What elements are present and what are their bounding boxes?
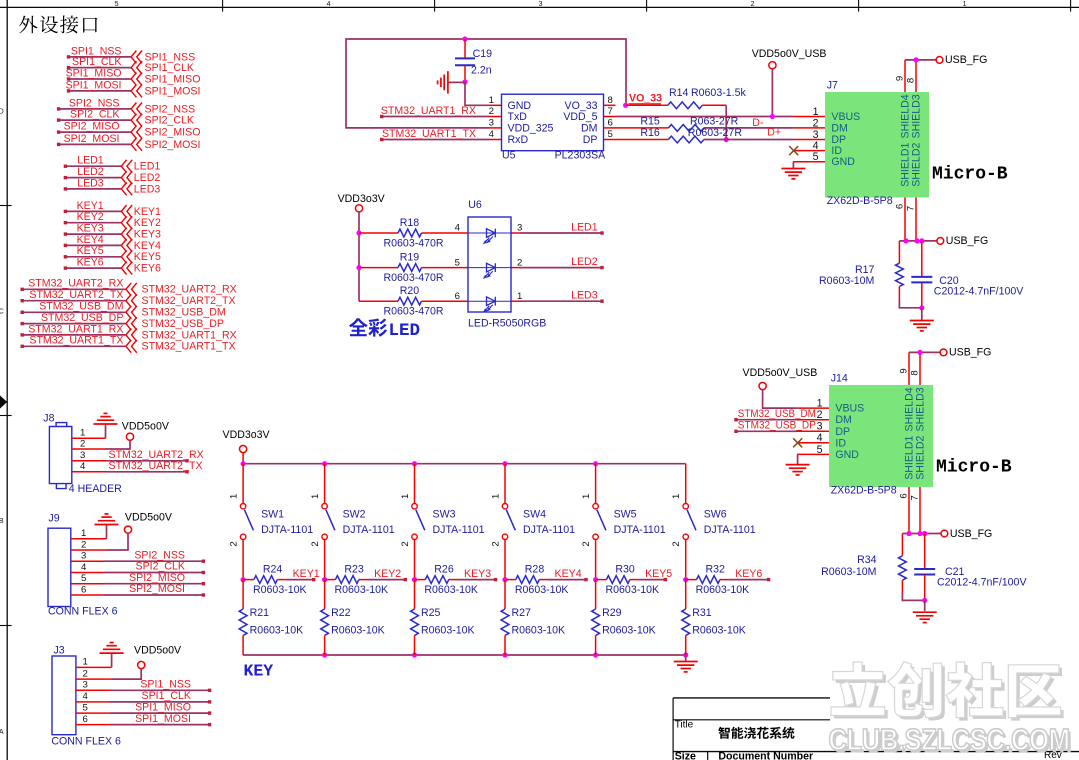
svg-text:D+: D+ [767,127,781,139]
port chevron STM32_USB_DM [126,306,137,319]
svg-text:VDD_325: VDD_325 [508,122,554,134]
U5 pin names left [508,100,554,146]
wire VDD_5 rail to J7 VBUS [616,116,794,118]
ground J14 GND [786,464,810,466]
svg-text:R18: R18 [400,217,420,229]
wire net SPI2_CLK [59,119,131,121]
port chevron KEY5 [121,250,132,263]
svg-text:VDD5o0V_USB: VDD5o0V_USB [752,48,827,60]
wire USB_FG bottom rail J7 [899,240,936,242]
wire C20 bottom lead [921,282,923,307]
svg-text:Document Number: Document Number [718,751,813,760]
svg-text:SHIELD3: SHIELD3 [911,94,923,138]
svg-text:KEY4: KEY4 [134,240,161,252]
switch SW4 pin2 circle [502,534,507,539]
wire net SPI2_MISO [59,131,131,133]
J7 pin stubs 1-5 [793,117,825,162]
junction bottom rail SW2 [322,652,327,657]
svg-text:LED2: LED2 [77,166,104,178]
resistor R22 top lead [324,580,326,609]
junction SW3 / resistors [412,577,417,582]
wire J7 top to USB_FG [905,59,937,61]
power port VDD3o3V circle (LED) [355,205,362,212]
svg-text:KEY5: KEY5 [134,251,161,263]
junction top rail SW1 [241,461,246,466]
svg-text:STM32_UART2_TX: STM32_UART2_TX [142,295,236,307]
svg-text:R0603-10K: R0603-10K [424,584,478,596]
wire to signal ground [448,81,465,83]
svg-text:1: 1 [817,398,823,410]
svg-text:R26: R26 [434,563,454,575]
svg-text:2: 2 [81,539,86,550]
resistor R31 [682,609,690,636]
svg-text:C2012-4.7nF/100V: C2012-4.7nF/100V [937,577,1027,589]
svg-text:3: 3 [517,223,522,234]
junction bottom rail SW3 [412,652,417,657]
document title 智能浇花系统 [718,727,794,739]
svg-text:2: 2 [517,257,522,268]
svg-text:R0603-10K: R0603-10K [696,584,750,596]
wire bottom rail to ground stem [685,655,687,661]
svg-text:R29: R29 [602,607,622,619]
svg-text:STM32_UART1_RX: STM32_UART1_RX [28,323,123,335]
svg-text:STM32_UART2_RX: STM32_UART2_RX [28,278,123,290]
wire to ground J7 filter [921,308,923,321]
resistor R30 [606,576,630,584]
svg-text:6: 6 [895,204,906,209]
svg-text:STM32_USB_DP: STM32_USB_DP [142,318,224,330]
svg-text:2: 2 [751,1,755,8]
junction R17/C20 bottom [919,305,924,310]
wire VO_33 loop (pin8 to pin3 via top) [346,39,626,128]
svg-text:SPI2_MOSI: SPI2_MOSI [145,139,201,151]
port chevron SPI2_MOSI [131,138,142,151]
port chevron KEY6 [121,262,132,275]
watermark background [830,648,1079,748]
wire R30 to KEY5 [630,579,638,581]
wire C21 top lead [924,534,926,570]
power port VDD5o0V circle [138,661,145,668]
svg-text:Size: Size [675,751,696,760]
wire R28 to KEY4 [539,579,547,581]
svg-text:DP: DP [583,134,598,146]
svg-text:1: 1 [489,95,494,106]
switch SW5 pin1 circle [593,504,598,509]
svg-text:SPI1_MOSI: SPI1_MOSI [135,713,191,725]
svg-text:KEY3: KEY3 [77,223,104,235]
svg-text:8: 8 [910,370,921,375]
junction pins 6,7 on J14 USB_FG rail [906,531,911,536]
KEY top rail wire [243,463,686,465]
svg-text:2: 2 [581,541,592,546]
wire net STM32_UART1_RX [22,334,125,336]
svg-text:SW4: SW4 [523,508,546,520]
svg-text:SPI1_CLK: SPI1_CLK [142,690,191,702]
svg-text:STM32_UART2_RX: STM32_UART2_RX [142,284,237,296]
svg-text:VDD5o0V: VDD5o0V [122,421,170,433]
svg-text:CONN FLEX 6: CONN FLEX 6 [51,735,121,747]
port chevron LED2 [121,171,132,184]
port chevron SPI1_MISO [131,73,142,86]
connector J3 body [52,656,76,735]
svg-text:1: 1 [813,106,819,118]
wire net STM32_USB_DP [22,323,125,325]
svg-text:2.2n: 2.2n [471,65,492,77]
svg-text:SHIELD2: SHIELD2 [911,143,923,187]
port chevron SPI1_MOSI [131,85,142,98]
svg-text:KEY4: KEY4 [555,568,582,580]
svg-text:SW5: SW5 [614,508,637,520]
svg-text:R24: R24 [263,563,283,575]
switch SW2 pin2 circle [322,534,327,539]
wire R29 to bottom rail [595,636,597,656]
power port VDD5o0V_USB circle [769,62,776,69]
no-connect X on J7 ID [789,146,798,155]
wire pin1 to ground [72,437,106,439]
connector J7 body [825,92,929,198]
wire J14 GND to ground [797,454,799,464]
J7 pin numbers 1-5 [813,106,819,163]
svg-text:R23: R23 [344,563,364,575]
ground J14 filter [913,611,937,613]
port chevron SPI2_NSS [131,103,142,116]
svg-text:1: 1 [80,428,85,439]
wire C21 bottom lead [924,575,926,601]
switch SW6 blade [687,510,696,531]
port chevron SPI2_MISO [131,126,142,139]
svg-text:R20: R20 [400,285,420,297]
svg-text:4: 4 [817,432,823,444]
svg-text:SPI1_MISO: SPI1_MISO [145,73,201,85]
wire J9 SPI2_MISO [71,583,104,585]
svg-text:STM32_USB_DM: STM32_USB_DM [39,301,123,313]
ground above pin1 [100,652,124,654]
svg-text:LED3: LED3 [571,290,598,302]
switch SW1 blade [244,510,253,531]
wire U6 to LED1 [511,232,520,234]
svg-text:KEY6: KEY6 [77,257,104,269]
port chevron STM32_UART2_RX [126,283,137,296]
svg-text:DJTA-1101: DJTA-1101 [343,524,395,536]
svg-text:R0603-470R: R0603-470R [384,272,444,284]
svg-text:KEY5: KEY5 [77,245,104,257]
port chevron LED3 [121,183,132,196]
svg-text:2: 2 [80,438,85,449]
wire J3 SPI1_CLK [76,701,110,703]
switch SW5 pin2 circle [593,534,598,539]
svg-text:VDD5o0V_USB: VDD5o0V_USB [743,367,818,379]
svg-text:2: 2 [817,409,823,421]
wire VDD5o0V_USB down [771,69,773,117]
resistor R20 [398,297,421,305]
svg-text:R0603-10K: R0603-10K [606,584,660,596]
svg-text:CLUB.SZLCSC.COM: CLUB.SZLCSC.COM [829,723,1070,757]
resistor R28 [516,576,540,584]
U5 left pin numbers 1-4 [489,95,495,140]
svg-text:R19: R19 [400,251,420,263]
svg-text:Micro-B: Micro-B [932,164,1008,184]
svg-text:R22: R22 [331,607,351,619]
svg-text:3: 3 [489,118,494,129]
svg-text:SHIELD2: SHIELD2 [915,436,927,480]
resistor R27 [501,609,509,636]
svg-text:R0603-10M: R0603-10M [819,275,874,287]
svg-text:USB_FG: USB_FG [946,235,988,247]
svg-text:R0603-10K: R0603-10K [421,625,475,637]
border column ticks [223,0,1071,12]
wire rail to SW2 pin1 [324,464,326,504]
wire R31 to bottom rail [685,636,687,656]
svg-text:SPI2_MOSI: SPI2_MOSI [64,133,120,145]
svg-text:CONN FLEX 6: CONN FLEX 6 [48,605,118,617]
resistor R19 [398,264,421,272]
wire to ground J14 filter [924,600,926,611]
resistor R21 top lead [242,580,244,609]
junction top rail SW3 [412,461,417,466]
svg-text:KEY1: KEY1 [293,568,320,580]
ground J7 filter [910,320,934,322]
power port VDD5o0V circle [126,433,133,440]
title 全彩LED [349,318,387,336]
svg-text:R063-27R: R063-27R [690,115,739,127]
svg-text:R0603-10K: R0603-10K [331,625,385,637]
wire R17 branch [898,241,900,263]
svg-text:TxD: TxD [508,111,528,123]
J8 pin numbers [80,428,86,473]
junction bottom rail SW5 [593,652,598,657]
power port USB_FG circle (J14 bottom) [941,530,948,537]
port chevron KEY4 [121,239,132,252]
power port VDD5o0V circle [124,526,131,533]
svg-text:R0603-10K: R0603-10K [335,584,389,596]
wire SW5 pin2 down [595,540,597,580]
svg-text:R0603-10M: R0603-10M [821,566,876,578]
wire J3 SPI1_NSS [76,689,110,691]
svg-text:1: 1 [228,494,239,499]
wire rail to R18 [359,232,398,234]
U6 led line row 2 [468,267,511,269]
svg-text:R28: R28 [525,563,545,575]
svg-text:GND: GND [831,156,855,168]
wire R21 to bottom rail [242,636,244,656]
watermark CLUB.SZLCSC.COM [829,723,1073,760]
connector J8 body [49,423,71,489]
junction R14/DP [724,137,729,142]
J7 pin names [831,111,860,168]
svg-text:7: 7 [906,206,917,211]
wire VDD5o0V_USB to J14 VBUS [763,390,797,408]
wire net KEY2 [65,222,121,224]
switch SW3 pin1 circle [412,504,417,509]
wire J9 SPI2_CLK [71,572,104,574]
svg-text:3: 3 [81,551,86,562]
wire DM row R15 [616,127,669,129]
U5 right pin numbers 8-5 [608,95,613,140]
svg-text:KEY1: KEY1 [77,200,104,212]
border column numbers [115,1,967,8]
KEY bottom rail wire [243,654,686,656]
svg-text:STM32_UART2_TX: STM32_UART2_TX [29,289,123,301]
svg-text:4 HEADER: 4 HEADER [69,483,122,495]
junction SW2 / resistors [322,577,327,582]
wire J9 SPI2_MOSI [71,594,104,596]
svg-text:VDD3o3V: VDD3o3V [223,429,271,441]
svg-text:R34: R34 [857,554,877,566]
J7 top shield pins 9,8 [904,60,906,92]
ground J7 GND [781,168,805,170]
svg-text:5: 5 [813,151,819,163]
wire net SPI2_MOSI [59,143,131,145]
svg-text:KEY2: KEY2 [374,568,401,580]
wire VDD5o0V to pin2 [107,533,129,550]
wire STM32_USB_DM to J14 DM [736,419,797,421]
power port USB_FG top circle [940,349,947,356]
svg-text:RxD: RxD [508,134,529,146]
U5 left pin stubs [490,105,502,139]
wire U6 to LED2 [511,267,520,269]
svg-text:STM32_UART1_RX: STM32_UART1_RX [381,105,476,117]
wire rail to SW3 pin1 [414,464,416,504]
svg-text:2: 2 [310,541,321,546]
wire VDD3o3V rail down [358,212,360,301]
svg-text:SPI2_MISO: SPI2_MISO [129,572,185,584]
capacitor C20 [911,276,932,278]
svg-text:R0603-27R: R0603-27R [688,127,743,139]
svg-text:R0603-10K: R0603-10K [250,625,304,637]
svg-text:8: 8 [906,78,917,83]
svg-text:VO_33: VO_33 [629,93,662,105]
svg-text:R0603-470R: R0603-470R [384,306,444,318]
svg-text:1: 1 [581,494,592,499]
svg-text:4: 4 [83,691,89,702]
svg-text:R0603-1.5k: R0603-1.5k [691,87,746,99]
svg-text:4: 4 [327,1,331,8]
port chevron STM32_UART1_TX [126,340,137,353]
wire SW3 pin2 down [414,540,416,580]
wire U6 to LED3 [511,300,520,302]
resistor R22 [321,609,329,636]
wire J7 GND to ground [792,162,794,169]
wire net LED1 [65,165,121,167]
ground above pin1 [95,524,119,526]
wire R25 to bottom rail [414,636,416,656]
svg-text:9: 9 [899,368,910,373]
svg-text:KEY1: KEY1 [134,206,161,218]
junction C19 bottom [462,79,467,84]
port chevron SPI1_CLK [131,61,142,74]
wire R14 to DP net [702,104,726,106]
svg-text:STM32_UART1_TX: STM32_UART1_TX [142,341,236,353]
diode symbols in U6 [484,229,495,312]
capacitor C19 [455,57,475,59]
svg-text:LED3: LED3 [77,177,104,189]
svg-text:LED-R5050RGB: LED-R5050RGB [468,317,546,329]
svg-text:1: 1 [490,494,501,499]
wire J3 SPI1_MISO [76,712,110,714]
wire to resistor R32 [686,579,697,581]
svg-text:STM32_UART2_TX: STM32_UART2_TX [109,460,203,472]
junction SW6 / resistors [683,577,688,582]
svg-text:SPI2_NSS: SPI2_NSS [69,97,120,109]
svg-text:2: 2 [489,106,494,117]
wire rail to SW6 pin1 [685,464,687,504]
svg-text:VO_33: VO_33 [565,100,598,112]
wire VDD3o3V to top rail [242,453,244,464]
junction top rail SW4 [502,461,507,466]
svg-text:STM32_UART1_RX: STM32_UART1_RX [142,329,237,341]
wire R34 bottom [901,580,903,593]
wire net SPI1_CLK [69,67,131,69]
svg-text:1: 1 [81,528,86,539]
no-connect X on J14 ID [793,438,802,447]
wire STM32_UART1_RX to U5 pin2 [382,116,490,118]
svg-text:5: 5 [83,702,88,713]
switch SW4 blade [506,510,515,531]
wire J8 pin4 STM32_UART2_TX [72,471,107,473]
port chevron KEY1 [121,205,132,218]
svg-text:LED2: LED2 [571,256,598,268]
sheet anchor arrow [0,396,7,409]
svg-text:ZX62D-B-5P8: ZX62D-B-5P8 [827,195,893,207]
svg-text:7: 7 [608,106,613,117]
underline VO_33 [629,103,662,105]
svg-text:LED2: LED2 [134,172,161,184]
wire to resistor R28 [505,579,516,581]
svg-text:R27: R27 [512,607,532,619]
svg-text:DJTA-1101: DJTA-1101 [261,524,313,536]
switch SW6 pin2 circle [683,534,688,539]
svg-text:5: 5 [817,444,823,456]
svg-text:2: 2 [813,117,819,129]
wire DP row R16 [616,139,669,141]
port chevron LED1 [121,160,132,173]
svg-text:2: 2 [400,541,411,546]
svg-text:C2012-4.7nF/100V: C2012-4.7nF/100V [934,286,1024,298]
svg-text:SPI1_MOSI: SPI1_MOSI [145,85,201,97]
svg-text:VDD5o0V: VDD5o0V [125,511,173,523]
junction C19 top [462,36,467,41]
switch SW2 blade [326,510,335,531]
op-amp U5 body [502,94,604,151]
svg-text:R15: R15 [640,115,660,127]
svg-text:USB_FG: USB_FG [950,528,992,540]
svg-text:VDD_5: VDD_5 [563,111,597,123]
wire net SPI1_MOSI [69,90,131,92]
svg-text:3: 3 [539,1,543,8]
junction SW1 / resistors [241,577,246,582]
port chevron STM32_UART2_TX [126,294,137,307]
svg-text:R30: R30 [615,563,635,575]
U5 pin names right [563,100,597,146]
svg-text:LED3: LED3 [134,183,161,195]
svg-text:3: 3 [817,421,823,433]
svg-text:8: 8 [608,95,613,106]
svg-text:SPI2_CLK: SPI2_CLK [70,109,119,121]
svg-text:D: D [0,109,4,116]
wire R34 branch [901,534,903,556]
wire R15 to J7 DM [704,127,793,129]
svg-text:R25: R25 [421,607,441,619]
svg-text:DJTA-1101: DJTA-1101 [614,524,666,536]
svg-text:C19: C19 [473,48,493,60]
U6 led line row 1 [468,232,511,234]
svg-text:KEY2: KEY2 [77,211,104,223]
svg-text:5: 5 [81,573,86,584]
resistor R16 [668,136,704,143]
resistor R32 [697,576,721,584]
svg-text:R32: R32 [705,563,725,575]
wire R27 to bottom rail [504,636,506,656]
